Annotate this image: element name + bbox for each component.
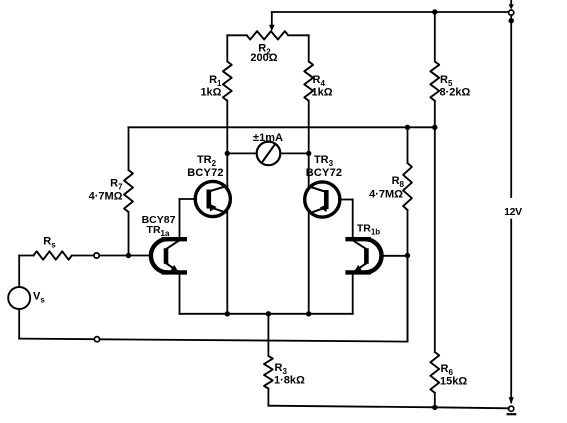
svg-text:BCY72: BCY72 [306,167,342,179]
svg-text:4·7MΩ: 4·7MΩ [369,189,403,201]
svg-text:1·8kΩ: 1·8kΩ [274,375,305,387]
svg-text:BCY72: BCY72 [187,167,223,179]
svg-text:4·7MΩ: 4·7MΩ [89,191,123,203]
svg-text:15kΩ: 15kΩ [440,376,467,388]
svg-text:1kΩ: 1kΩ [312,87,333,99]
svg-text:1kΩ: 1kΩ [200,87,221,99]
svg-text:200Ω: 200Ω [250,52,277,64]
svg-text:8·2kΩ: 8·2kΩ [440,87,471,99]
svg-text:12V: 12V [504,206,522,218]
svg-text:±1mA: ±1mA [253,132,283,144]
